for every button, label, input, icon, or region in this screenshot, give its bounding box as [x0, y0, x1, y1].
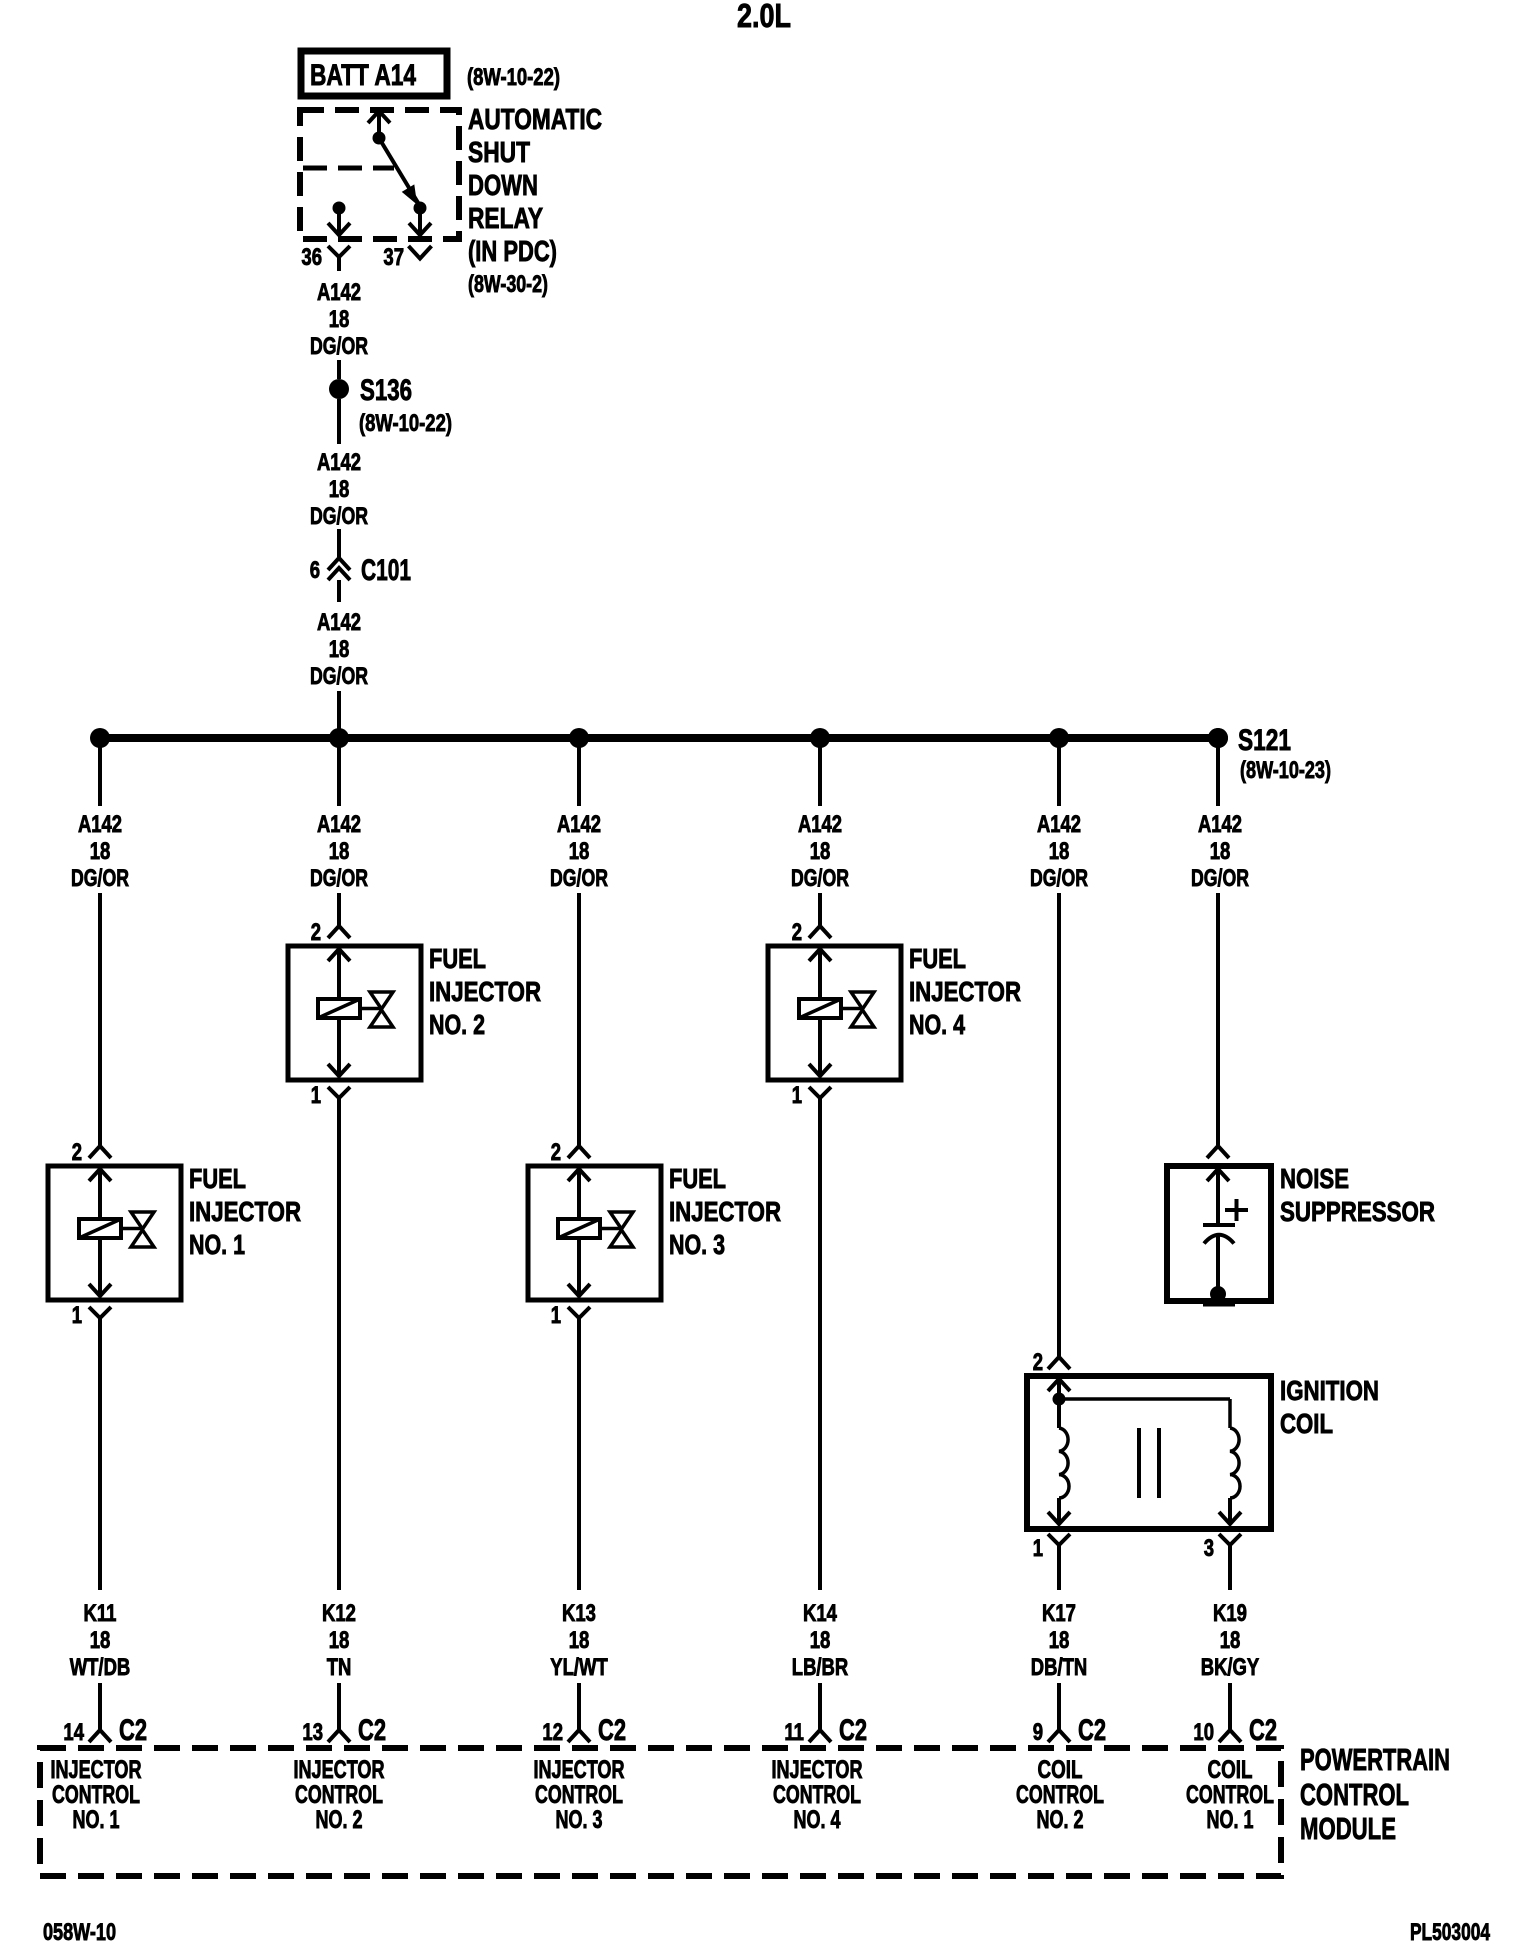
svg-text:POWERTRAIN: POWERTRAIN: [1300, 1742, 1450, 1777]
wire to PCM pin 12: [577, 1683, 581, 1729]
svg-text:6: 6: [310, 557, 320, 584]
svg-text:CONTROL: CONTROL: [1186, 1781, 1274, 1809]
svg-text:NO. 4: NO. 4: [794, 1806, 841, 1834]
svg-text:WT/DB: WT/DB: [70, 1654, 131, 1681]
svg-text:K12: K12: [322, 1600, 356, 1627]
wire label K17 18 DB/TN: [1031, 1600, 1087, 1681]
fuse BATT A14: [301, 51, 447, 96]
pin 1 connector of ignition coil: [1048, 1534, 1070, 1559]
svg-text:DG/OR: DG/OR: [791, 865, 849, 892]
wire label K19 18 BK/GY: [1201, 1600, 1260, 1681]
pin number 11: [784, 1719, 804, 1746]
branch wire from bus, column 5: [1057, 742, 1061, 806]
svg-text:CONTROL: CONTROL: [1300, 1777, 1409, 1812]
svg-text:NO. 1: NO. 1: [73, 1806, 120, 1834]
relay K1 automatic shut down relay box: [300, 110, 459, 239]
svg-text:FUEL: FUEL: [909, 943, 966, 974]
svg-text:NO. 1: NO. 1: [1207, 1806, 1254, 1834]
wire to PCM pin 11: [818, 1683, 822, 1729]
svg-text:18: 18: [329, 838, 350, 865]
wire label A142 18 DG/OR column 2: [310, 811, 368, 892]
connector label C2 (pin 12): [598, 1714, 626, 1747]
svg-text:SUPPRESSOR: SUPPRESSOR: [1280, 1196, 1435, 1227]
svg-text:C2: C2: [1078, 1714, 1106, 1747]
pin 2 connector of ignition coil: [1048, 1357, 1070, 1369]
svg-text:IGNITION: IGNITION: [1280, 1375, 1379, 1406]
pin number 1 of ignition coil: [1033, 1535, 1043, 1562]
relay common node dot: [373, 132, 386, 145]
pin 3 connector of ignition coil: [1219, 1534, 1241, 1559]
svg-text:A142: A142: [317, 811, 361, 838]
svg-text:FUEL: FUEL: [189, 1163, 246, 1194]
relay contact node dot pin 37: [414, 202, 427, 215]
relay name label: [468, 104, 602, 298]
branch wire from bus, column 4: [818, 742, 822, 806]
svg-text:K19: K19: [1213, 1600, 1247, 1627]
wire from bus to noise suppressor: [1216, 893, 1220, 1145]
svg-text:DG/OR: DG/OR: [310, 663, 368, 690]
wire to PCM pin 14: [98, 1683, 102, 1729]
svg-text:13: 13: [302, 1719, 323, 1746]
svg-text:18: 18: [1049, 838, 1070, 865]
svg-text:NO. 2: NO. 2: [316, 1806, 363, 1834]
svg-text:(8W-10-22): (8W-10-22): [467, 64, 560, 91]
svg-text:18: 18: [810, 1627, 831, 1654]
svg-text:(8W-30-2): (8W-30-2): [468, 271, 548, 298]
svg-text:INJECTOR: INJECTOR: [669, 1196, 781, 1227]
wire from bus label to fuel injector no. 3 pin 2: [577, 893, 581, 1145]
svg-text:RELAY: RELAY: [468, 203, 543, 235]
pin number 2 of fuel injector no. 2: [311, 919, 321, 946]
relay pin 36 internal arrow down: [328, 208, 350, 235]
connector label C2 (pin 9): [1078, 1714, 1106, 1747]
PCM internal label INJECTOR CONTROL NO. 4: [772, 1756, 863, 1834]
pin 1 connector of fuel injector no. 4: [809, 1087, 831, 1112]
pin number 6: [310, 557, 320, 584]
label (8W-10-22) for BATT A14: [467, 64, 560, 91]
pin 2 connector of fuel injector no. 4: [809, 926, 831, 938]
wire label A142 18 DG/OR column 5: [1030, 811, 1088, 892]
svg-text:18: 18: [569, 1627, 590, 1654]
connector label C2 (pin 11): [839, 1714, 867, 1747]
label FUEL INJECTOR NO. 3: [669, 1163, 781, 1260]
wire label A142 18 DG/OR column 3: [550, 811, 608, 892]
PCM pin 14 connector C2: [89, 1730, 111, 1742]
svg-text:COIL: COIL: [1280, 1408, 1333, 1439]
wire A142 18 DG/OR below C101: [310, 609, 368, 690]
pin 1 connector of fuel injector no. 2: [328, 1087, 350, 1112]
PCM pin 13 connector C2: [328, 1730, 350, 1742]
ignition coil secondary winding: [1219, 1428, 1241, 1524]
svg-text:2: 2: [72, 1139, 82, 1166]
pin number 2 of ignition coil: [1033, 1349, 1043, 1376]
svg-text:36: 36: [301, 244, 322, 271]
svg-text:BK/GY: BK/GY: [1201, 1654, 1260, 1681]
svg-text:C2: C2: [839, 1714, 867, 1747]
footer sheet number 058W-10: [43, 1919, 116, 1946]
pin number 2 of fuel injector no. 1: [72, 1139, 82, 1166]
relay internal divider: [303, 166, 394, 171]
svg-text:FUEL: FUEL: [669, 1163, 726, 1194]
svg-text:A142: A142: [317, 279, 361, 306]
svg-text:18: 18: [90, 838, 111, 865]
svg-text:PL503004: PL503004: [1410, 1919, 1490, 1946]
pin 2 connector of fuel injector no. 3: [568, 1146, 590, 1158]
PCM internal label COIL CONTROL NO. 2: [1016, 1756, 1104, 1834]
wire label K14 18 LB/BR: [792, 1600, 848, 1681]
svg-text:1: 1: [551, 1302, 561, 1329]
svg-text:18: 18: [569, 838, 590, 865]
svg-text:18: 18: [1049, 1627, 1070, 1654]
pin 1 connector of fuel injector no. 1: [89, 1307, 111, 1332]
wire segment to splice bus: [337, 691, 341, 738]
title 2.0L: [737, 0, 791, 34]
svg-text:C2: C2: [119, 1714, 147, 1747]
svg-text:INJECTOR: INJECTOR: [189, 1196, 301, 1227]
svg-text:INJECTOR: INJECTOR: [294, 1756, 385, 1784]
label C101: [361, 554, 411, 587]
wire to PCM pin 9: [1057, 1683, 1061, 1729]
relay coil node dot pin 36: [333, 202, 346, 215]
noise suppressor internal arrow: [1207, 1169, 1229, 1223]
wire A142 18 DG/OR from relay pin 36: [310, 279, 368, 360]
svg-text:S121: S121: [1238, 724, 1291, 757]
splice bus wire S121: [100, 734, 1218, 742]
pin number 1 of fuel injector no. 4: [792, 1082, 802, 1109]
pin number 3 of ignition coil: [1204, 1535, 1214, 1562]
wire from fuel injector no. 4 pin 1 down to PCM: [818, 1112, 822, 1590]
pin number 14: [63, 1719, 84, 1746]
PCM internal label INJECTOR CONTROL NO. 3: [534, 1756, 625, 1834]
wire capacitor to ground: [1216, 1236, 1220, 1293]
svg-text:(IN PDC): (IN PDC): [468, 236, 557, 268]
splice junction dot S121 right end: [1208, 728, 1228, 748]
pin number 2 of fuel injector no. 4: [792, 919, 802, 946]
splice junction dot 3: [569, 728, 589, 748]
PCM internal label INJECTOR CONTROL NO. 2: [294, 1756, 385, 1834]
svg-text:DG/OR: DG/OR: [1191, 865, 1249, 892]
svg-text:9: 9: [1033, 1719, 1043, 1746]
label S136: [360, 374, 412, 407]
svg-text:11: 11: [784, 1719, 804, 1746]
svg-text:18: 18: [329, 636, 350, 663]
ignition coil box: [1027, 1376, 1271, 1529]
relay pin 37 connector half: [409, 246, 432, 259]
capacitor polarity plus sign: [1225, 1199, 1248, 1221]
svg-text:18: 18: [90, 1627, 111, 1654]
svg-text:2.0L: 2.0L: [737, 0, 791, 34]
svg-text:12: 12: [542, 1719, 563, 1746]
svg-text:DG/OR: DG/OR: [550, 865, 608, 892]
relay pin 37 internal arrow down: [409, 208, 431, 235]
wire from fuel injector no. 2 pin 1 down to PCM: [337, 1112, 341, 1590]
wire coil pin 3 down: [1228, 1559, 1232, 1590]
svg-text:COIL: COIL: [1038, 1756, 1083, 1784]
svg-text:BATT A14: BATT A14: [310, 59, 416, 92]
splice junction dot 1: [90, 728, 110, 748]
wire A142 18 DG/OR above C101: [310, 449, 368, 530]
svg-text:K14: K14: [803, 1600, 837, 1627]
wire label A142 18 DG/OR column 6: [1191, 811, 1249, 892]
svg-text:NO. 4: NO. 4: [909, 1009, 965, 1040]
label IGNITION COIL: [1280, 1375, 1379, 1439]
svg-text:DOWN: DOWN: [468, 170, 538, 202]
svg-text:18: 18: [1220, 1627, 1241, 1654]
PCM pin 9 connector C2: [1048, 1730, 1070, 1742]
svg-text:18: 18: [329, 1627, 350, 1654]
svg-text:CONTROL: CONTROL: [1016, 1781, 1104, 1809]
svg-text:NOISE: NOISE: [1280, 1163, 1349, 1194]
svg-text:S136: S136: [360, 374, 412, 407]
svg-text:2: 2: [551, 1139, 561, 1166]
svg-text:INJECTOR: INJECTOR: [772, 1756, 863, 1784]
svg-text:INJECTOR: INJECTOR: [534, 1756, 625, 1784]
svg-text:NO. 2: NO. 2: [429, 1009, 485, 1040]
svg-text:MODULE: MODULE: [1300, 1811, 1396, 1846]
svg-text:CONTROL: CONTROL: [773, 1781, 861, 1809]
fuel injector no. 2 (solenoid + nozzle): [288, 946, 421, 1080]
wire label K13 18 YL/WT: [550, 1600, 608, 1681]
label FUEL INJECTOR NO. 1: [189, 1163, 301, 1260]
svg-text:AUTOMATIC: AUTOMATIC: [468, 104, 602, 136]
svg-text:CONTROL: CONTROL: [535, 1781, 623, 1809]
connector label C2 (pin 13): [358, 1714, 386, 1747]
branch wire from bus, column 1: [98, 742, 102, 806]
wire to PCM pin 13: [337, 1683, 341, 1729]
ignition coil primary winding: [1048, 1399, 1070, 1524]
wire segment to C101: [337, 529, 341, 557]
svg-text:TN: TN: [327, 1654, 352, 1681]
svg-text:SHUT: SHUT: [468, 137, 530, 169]
svg-text:A142: A142: [78, 811, 122, 838]
svg-text:DG/OR: DG/OR: [71, 865, 129, 892]
wire from fuel injector no. 3 pin 1 down to PCM: [577, 1332, 581, 1590]
pin number 1 of fuel injector no. 3: [551, 1302, 561, 1329]
svg-text:18: 18: [1210, 838, 1231, 865]
label POWERTRAIN CONTROL MODULE: [1300, 1742, 1450, 1846]
wire coil pin 1 down: [1057, 1559, 1061, 1590]
svg-text:DG/OR: DG/OR: [1030, 865, 1088, 892]
svg-text:A142: A142: [317, 609, 361, 636]
pin number 1 of fuel injector no. 1: [72, 1302, 82, 1329]
label (8W-10-22) for S136: [359, 410, 452, 437]
splice junction dot 5: [1049, 728, 1069, 748]
pin number 12: [542, 1719, 563, 1746]
svg-text:K11: K11: [84, 1600, 117, 1627]
svg-text:(8W-10-22): (8W-10-22): [359, 410, 452, 437]
svg-text:A142: A142: [1198, 811, 1242, 838]
fuel injector no. 3 (solenoid + nozzle): [528, 1166, 661, 1300]
wire from bus label to fuel injector no. 2 pin 2: [337, 893, 341, 925]
relay switch arm (arrow): [379, 138, 420, 206]
branch wire from bus, column 3: [577, 742, 581, 806]
pin number 10: [1193, 1719, 1214, 1746]
wire label A142 18 DG/OR column 4: [791, 811, 849, 892]
svg-text:INJECTOR: INJECTOR: [429, 976, 541, 1007]
noise suppressor box: [1167, 1166, 1271, 1301]
svg-text:058W-10: 058W-10: [43, 1919, 116, 1946]
powertrain control module box U1: [40, 1748, 1281, 1876]
pin connector of noise suppressor: [1207, 1146, 1229, 1158]
svg-text:1: 1: [792, 1082, 802, 1109]
ignition coil internal arrow pin 2: [1048, 1379, 1070, 1399]
wire from bus label to fuel injector no. 4 pin 2: [818, 893, 822, 925]
pin number 36: [301, 244, 322, 271]
label S121: [1238, 724, 1291, 757]
wire from bus to ignition coil pin 2: [1057, 893, 1061, 1356]
svg-text:37: 37: [383, 244, 404, 271]
svg-text:1: 1: [311, 1082, 321, 1109]
svg-text:18: 18: [329, 306, 350, 333]
svg-text:1: 1: [1033, 1535, 1043, 1562]
ignition coil internal node dot: [1053, 1393, 1066, 1406]
fuel injector no. 1 (solenoid + nozzle): [48, 1166, 181, 1300]
svg-text:LB/BR: LB/BR: [792, 1654, 848, 1681]
svg-text:1: 1: [72, 1302, 82, 1329]
pin 1 connector of fuel injector no. 3: [568, 1307, 590, 1332]
PCM pin 10 connector C2: [1219, 1730, 1241, 1742]
svg-text:C2: C2: [358, 1714, 386, 1747]
pin number 37: [383, 244, 404, 271]
connector label C2 (pin 14): [119, 1714, 147, 1747]
svg-text:C101: C101: [361, 554, 411, 587]
wire label A142 18 DG/OR column 1: [71, 811, 129, 892]
ignition coil internal link wire: [1059, 1399, 1230, 1428]
svg-text:C2: C2: [598, 1714, 626, 1747]
ignition coil core: [1139, 1428, 1159, 1498]
branch wire from bus, column 2: [337, 742, 341, 806]
svg-text:FUEL: FUEL: [429, 943, 486, 974]
splice junction dot 6: [1208, 728, 1228, 748]
svg-text:K17: K17: [1042, 1600, 1076, 1627]
wire label K12 18 TN: [322, 1600, 356, 1681]
relay pin 36 connector half: [328, 246, 350, 271]
svg-text:2: 2: [792, 919, 802, 946]
pin 2 connector of fuel injector no. 1: [89, 1146, 111, 1158]
svg-text:DG/OR: DG/OR: [310, 503, 368, 530]
svg-text:10: 10: [1193, 1719, 1214, 1746]
relay pin 30 arrow to BATT: [368, 111, 390, 138]
svg-text:CONTROL: CONTROL: [52, 1781, 140, 1809]
wire segment to S136: [337, 360, 341, 379]
label (8W-10-23): [1240, 757, 1331, 784]
svg-text:A142: A142: [798, 811, 842, 838]
svg-text:14: 14: [63, 1719, 84, 1746]
label NOISE SUPPRESSOR: [1280, 1163, 1435, 1227]
pin 2 connector of fuel injector no. 2: [328, 926, 350, 938]
PCM pin 11 connector C2: [809, 1730, 831, 1742]
svg-text:NO. 3: NO. 3: [556, 1806, 603, 1834]
PCM internal label INJECTOR CONTROL NO. 1: [51, 1756, 142, 1834]
capacitor C (top plate and curved plate): [1203, 1225, 1235, 1244]
pin number 1 of fuel injector no. 2: [311, 1082, 321, 1109]
svg-text:K13: K13: [562, 1600, 596, 1627]
pin number 13: [302, 1719, 323, 1746]
svg-text:DB/TN: DB/TN: [1031, 1654, 1087, 1681]
svg-text:18: 18: [329, 476, 350, 503]
svg-text:COIL: COIL: [1208, 1756, 1253, 1784]
connector label C2 (pin 10): [1249, 1714, 1277, 1747]
svg-text:INJECTOR: INJECTOR: [51, 1756, 142, 1784]
svg-text:CONTROL: CONTROL: [295, 1781, 383, 1809]
wire to PCM pin 10: [1228, 1683, 1232, 1729]
wire label K11 18 WT/DB: [70, 1600, 131, 1681]
svg-text:A142: A142: [1037, 811, 1081, 838]
svg-text:DG/OR: DG/OR: [310, 333, 368, 360]
svg-text:DG/OR: DG/OR: [310, 865, 368, 892]
ground bar: [1203, 1302, 1235, 1307]
svg-text:NO. 1: NO. 1: [189, 1229, 245, 1260]
label FUEL INJECTOR NO. 4: [909, 943, 1021, 1040]
svg-text:INJECTOR: INJECTOR: [909, 976, 1021, 1007]
svg-text:YL/WT: YL/WT: [550, 1654, 608, 1681]
splice junction dot 4: [810, 728, 830, 748]
svg-text:NO. 3: NO. 3: [669, 1229, 725, 1260]
pin number 2 of fuel injector no. 3: [551, 1139, 561, 1166]
splice junction dot 2: [329, 728, 349, 748]
ground node dot: [1210, 1286, 1226, 1302]
connector C101 pin 6 (double chevron): [328, 558, 350, 602]
svg-text:3: 3: [1204, 1535, 1214, 1562]
wire from fuel injector no. 1 pin 1 down to PCM: [98, 1332, 102, 1590]
svg-text:C2: C2: [1249, 1714, 1277, 1747]
fuel injector no. 4 (solenoid + nozzle): [768, 946, 901, 1080]
svg-text:2: 2: [311, 919, 321, 946]
pin number 9: [1033, 1719, 1043, 1746]
PCM internal label COIL CONTROL NO. 1: [1186, 1756, 1274, 1834]
svg-text:2: 2: [1033, 1349, 1043, 1376]
svg-text:A142: A142: [317, 449, 361, 476]
svg-text:18: 18: [810, 838, 831, 865]
PCM pin 12 connector C2: [568, 1730, 590, 1742]
svg-text:(8W-10-23): (8W-10-23): [1240, 757, 1331, 784]
svg-text:NO. 2: NO. 2: [1037, 1806, 1084, 1834]
wire segment below S136: [337, 399, 341, 444]
svg-text:A142: A142: [557, 811, 601, 838]
label FUEL INJECTOR NO. 2: [429, 943, 541, 1040]
wire from bus label to fuel injector no. 1 pin 2: [98, 893, 102, 1145]
footer drawing number PL503004: [1410, 1919, 1490, 1946]
splice S136: [329, 379, 349, 399]
branch wire from bus, column 6: [1216, 742, 1220, 806]
